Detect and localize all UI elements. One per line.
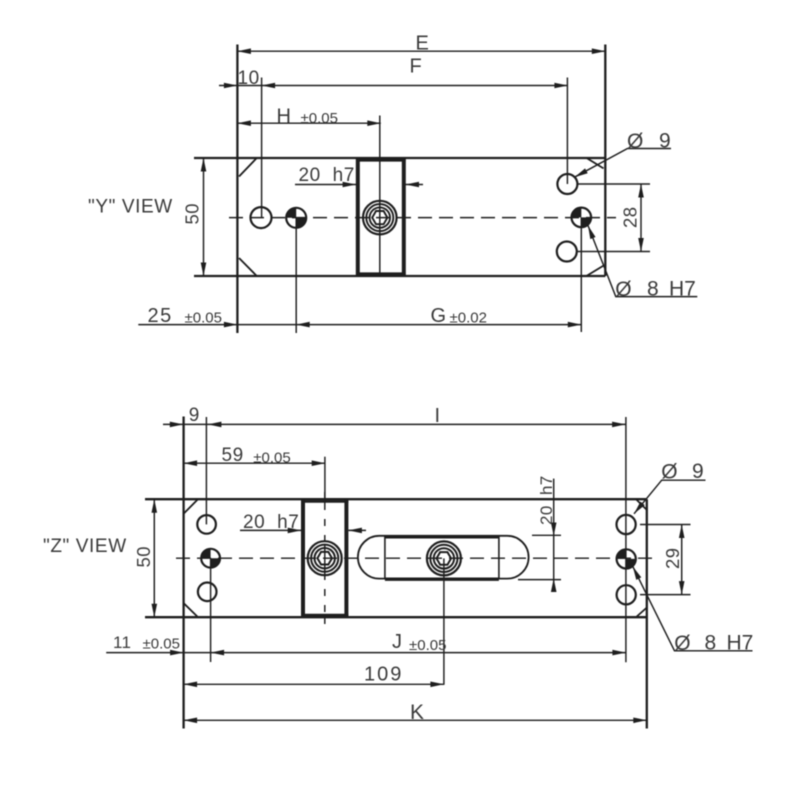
Z datum target right — [617, 549, 636, 568]
svg-text:8: 8 — [647, 278, 659, 301]
Z view plate outline — [145, 417, 647, 729]
Z socket screw in band — [308, 541, 342, 575]
svg-text:20 h7: 20 h7 — [299, 165, 355, 186]
leader diameter 9 (Y) — [575, 149, 672, 178]
dimension K — [184, 719, 647, 721]
svg-text:28: 28 — [620, 206, 641, 228]
svg-text:109: 109 — [364, 664, 403, 686]
Y view texts — [88, 33, 696, 328]
Z slot thick top flat — [385, 535, 499, 538]
Z chamfer bottom-left — [184, 603, 198, 617]
Y hole bottom-right — [557, 242, 577, 262]
dimension H — [237, 116, 380, 276]
dimension 20 h7 (Z slot vertical) — [518, 479, 561, 591]
svg-text:±0.05: ±0.05 — [143, 635, 180, 652]
svg-text:9: 9 — [189, 405, 200, 426]
dimension 25 and G line — [138, 217, 581, 333]
dimension 50 (Y) — [203, 158, 205, 276]
Y datum target right — [572, 208, 592, 228]
Y slot band top cap — [356, 159, 406, 162]
svg-text:50: 50 — [133, 546, 154, 568]
dimension 29 — [640, 525, 691, 595]
Z socket screw in slot — [427, 541, 461, 575]
svg-text:J: J — [392, 631, 402, 653]
Z slot cap junction right — [498, 536, 500, 578]
Z band vertical centerline — [324, 492, 326, 624]
svg-text:±0.05: ±0.05 — [253, 450, 290, 467]
Y chamfer top-right — [586, 158, 603, 169]
Z slot band right thick edge — [344, 500, 348, 617]
svg-text:9: 9 — [659, 130, 671, 153]
Y hole left 10mm — [251, 207, 272, 228]
Z centerline — [176, 557, 656, 559]
svg-text:H7: H7 — [669, 278, 696, 301]
Y chamfer top-left — [239, 158, 257, 176]
Y slot band left thick edge — [356, 159, 360, 276]
leader diameter 8 H7 (Z) — [633, 567, 753, 651]
svg-text:29: 29 — [662, 547, 683, 569]
Z slot band left thick edge — [301, 500, 305, 617]
Z slot band top cap — [301, 500, 348, 503]
svg-text:±0.05: ±0.05 — [301, 110, 338, 127]
svg-text:H7: H7 — [727, 632, 754, 655]
dimension 20 h7 (Y) — [295, 184, 423, 186]
dimension 11 and J line — [106, 558, 626, 662]
Z chamfer bottom-right — [636, 608, 647, 618]
dimension 28 — [577, 184, 650, 252]
Z view texts — [43, 405, 753, 724]
Y slot band bottom cap — [356, 272, 406, 275]
svg-text:H: H — [277, 106, 292, 128]
Y datum target left — [286, 208, 306, 228]
dimension 10 and F line — [219, 78, 568, 218]
leader diameter 9 (Z) — [634, 480, 706, 514]
svg-text:8: 8 — [705, 632, 717, 655]
svg-text:"Y" VIEW: "Y" VIEW — [88, 197, 173, 218]
svg-text:±0.05: ±0.05 — [409, 637, 446, 654]
Y centerline — [229, 217, 616, 219]
svg-text:I: I — [435, 405, 441, 427]
Z chamfer top-left — [184, 499, 198, 513]
Z hole bottom-left — [198, 583, 217, 602]
svg-text:Ø: Ø — [627, 130, 643, 153]
svg-text:Ø: Ø — [661, 461, 677, 484]
dimension E — [237, 50, 605, 52]
svg-text:50: 50 — [182, 203, 203, 225]
Z chamfer top-right — [636, 499, 647, 510]
dimension 9 and I line — [163, 417, 626, 662]
Z slot thick bottom flat — [385, 578, 499, 581]
svg-text:9: 9 — [692, 460, 704, 483]
svg-text:10: 10 — [238, 68, 260, 89]
dimension 109 — [184, 558, 444, 684]
svg-text:59: 59 — [222, 445, 244, 466]
Z horizontal slot stadium — [358, 536, 529, 579]
svg-text:11: 11 — [113, 633, 131, 652]
svg-text:"Z" VIEW: "Z" VIEW — [43, 536, 127, 557]
svg-text:20 h7: 20 h7 — [243, 512, 299, 533]
Z hole top-left — [197, 515, 216, 534]
Z hole top-right — [617, 515, 636, 534]
leader diameter 8 H7 (Y) — [588, 226, 697, 297]
Z slot cap junction left — [384, 536, 386, 578]
svg-text:20 h7: 20 h7 — [537, 475, 556, 525]
Z hole bottom-right — [617, 585, 636, 604]
dimension 59 — [184, 457, 326, 502]
Y slot band right thick edge — [402, 159, 406, 276]
svg-text:G: G — [431, 305, 447, 327]
svg-text:F: F — [410, 56, 423, 78]
svg-text:±0.02: ±0.02 — [450, 310, 487, 327]
Y hole top-right — [557, 174, 577, 194]
Z datum target left — [201, 549, 220, 568]
Y chamfer bottom-left — [239, 258, 257, 276]
svg-text:Ø: Ø — [615, 278, 631, 301]
svg-text:Ø: Ø — [674, 632, 690, 655]
svg-text:E: E — [416, 33, 430, 55]
svg-text:25: 25 — [148, 305, 173, 327]
svg-text:K: K — [410, 701, 424, 724]
dimension 50 (Z) — [153, 499, 155, 617]
Y view plate outline — [194, 45, 605, 334]
Y socket screw — [363, 201, 397, 235]
svg-text:±0.05: ±0.05 — [185, 310, 222, 327]
dimension 20 h7 (Z band) — [240, 529, 366, 531]
Z slot band bottom cap — [301, 614, 348, 617]
Y chamfer bottom-right — [586, 266, 603, 276]
